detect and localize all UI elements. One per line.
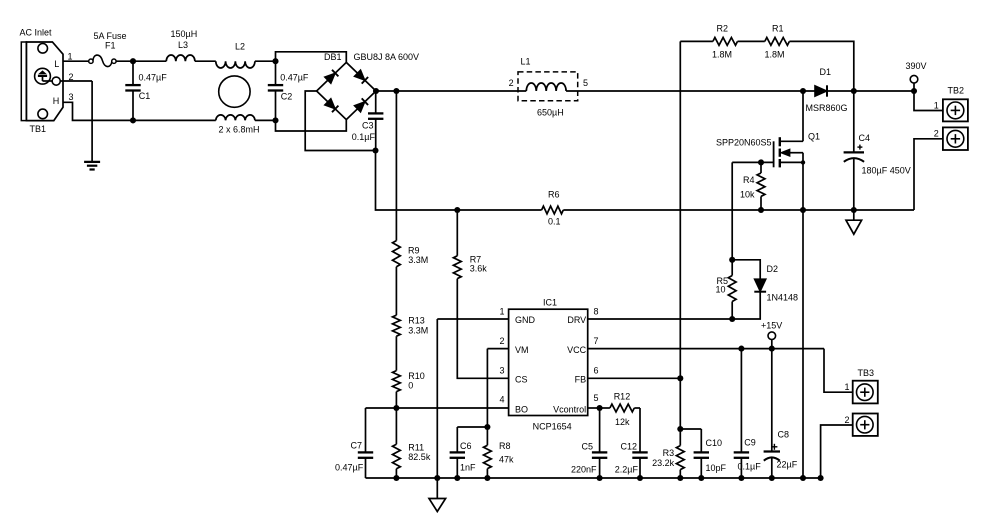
node return ground <box>800 475 806 481</box>
node R8 ground <box>484 475 490 481</box>
bridge rectifier DB1 <box>317 62 376 119</box>
diode D1 <box>815 86 827 97</box>
resistor R12 <box>600 407 610 409</box>
svg-text:Q1: Q1 <box>808 131 820 141</box>
svg-text:BO: BO <box>515 404 528 414</box>
resistor R7 <box>453 256 461 279</box>
node C12 ground <box>637 475 643 481</box>
wire fuse to L3 (through C1 node) <box>116 60 166 62</box>
svg-text:82.5k: 82.5k <box>408 452 431 462</box>
wire DRV pin8 <box>588 318 733 320</box>
common-mode choke core <box>219 76 250 107</box>
node C10 tap <box>677 426 683 432</box>
svg-text:TB3: TB3 <box>858 368 875 378</box>
svg-text:Vcontrol: Vcontrol <box>553 404 586 414</box>
fuse F1 <box>89 59 93 63</box>
svg-text:180µF 450V: 180µF 450V <box>862 166 911 176</box>
svg-text:MSR860G: MSR860G <box>806 103 848 113</box>
svg-text:R9: R9 <box>408 245 420 255</box>
svg-text:22µF: 22µF <box>777 460 798 470</box>
wire VCC to TB3 pin1 <box>824 349 853 393</box>
wire FB column to R3 <box>679 378 681 445</box>
node C5 ground <box>597 475 603 481</box>
svg-text:C6: C6 <box>460 441 472 451</box>
svg-text:C4: C4 <box>859 133 871 143</box>
wire R9 to R13 <box>395 267 397 316</box>
svg-text:10pF: 10pF <box>706 463 727 473</box>
svg-text:8: 8 <box>594 306 599 316</box>
wire L3 to L2 <box>195 60 216 62</box>
wire choke to C2 bottom <box>255 119 276 121</box>
svg-text:C7: C7 <box>351 441 363 451</box>
terminal block TB3 <box>853 381 878 404</box>
transistor Q1 <box>773 141 775 167</box>
node TB3 ground <box>818 475 824 481</box>
resistor R3 <box>676 446 684 470</box>
node C4 negative on return rail <box>851 207 857 213</box>
wire gate column down <box>731 162 733 259</box>
wire Q1 source to return rail <box>802 153 804 210</box>
wire VM pin2 <box>487 348 508 350</box>
svg-text:F1: F1 <box>105 41 116 51</box>
node bridge DC+ output <box>373 88 379 94</box>
svg-text:3.3M: 3.3M <box>408 255 428 265</box>
terminal block TB2 <box>943 99 968 121</box>
wire FB pin6 <box>588 377 681 379</box>
capacitor C12 <box>639 408 641 452</box>
svg-text:1: 1 <box>499 306 504 316</box>
svg-text:GBU8J 8A 600V: GBU8J 8A 600V <box>354 52 420 62</box>
svg-text:390V: 390V <box>906 61 927 71</box>
wire R10 to BO node <box>395 392 397 408</box>
svg-text:NCP1654: NCP1654 <box>533 422 572 432</box>
wire feedback top row left <box>680 40 713 42</box>
svg-text:1: 1 <box>934 101 939 111</box>
resistor R5 <box>731 260 733 276</box>
svg-text:GND: GND <box>515 315 536 325</box>
wire VM node to C6 <box>457 426 487 428</box>
wire TB1 pin3 to bottom rail <box>63 102 216 120</box>
PFC controller IC1 NCP1654 <box>509 309 588 415</box>
node C6 ground <box>454 475 460 481</box>
node C8 ground <box>769 475 775 481</box>
node DRV to gate network <box>729 316 735 322</box>
svg-text:R10: R10 <box>408 371 425 381</box>
svg-text:1nF: 1nF <box>460 463 476 473</box>
svg-text:0: 0 <box>408 380 413 390</box>
svg-text:L2: L2 <box>235 42 245 52</box>
svg-text:12k: 12k <box>615 417 630 427</box>
svg-text:C12: C12 <box>621 442 638 452</box>
node R4 bottom on return rail <box>758 207 764 213</box>
svg-text:TB1: TB1 <box>30 124 47 134</box>
node C1 top <box>130 58 136 64</box>
svg-text:C10: C10 <box>706 438 723 448</box>
capacitor C6 <box>456 427 458 452</box>
svg-text:R8: R8 <box>499 441 511 451</box>
node C2 top <box>272 58 278 64</box>
inductor L1 <box>518 72 578 101</box>
capacitor C9 <box>740 349 742 453</box>
wire VCC pin7 <box>588 348 824 350</box>
capacitor C8 <box>771 349 773 452</box>
wire feedback column <box>679 41 681 378</box>
capacitor C10 <box>700 429 702 452</box>
svg-text:3.6k: 3.6k <box>470 264 488 274</box>
node Q1 drain tap <box>800 88 806 94</box>
wire R13 to R10 <box>395 336 397 370</box>
node C10 ground <box>698 475 704 481</box>
node Vcontrol <box>597 405 603 411</box>
signal ground <box>436 478 438 499</box>
svg-text:FB: FB <box>575 374 587 384</box>
power ground <box>853 210 855 220</box>
svg-text:R6: R6 <box>548 190 560 200</box>
wire C2 top to bridge AC1 <box>276 52 347 63</box>
node gate R4 tap <box>758 159 764 165</box>
wire return to signal ground <box>802 210 804 478</box>
svg-text:CS: CS <box>515 374 528 384</box>
svg-text:R4: R4 <box>743 175 755 185</box>
resistor R13 <box>393 315 401 336</box>
resistor R10 <box>393 371 401 392</box>
svg-text:C3: C3 <box>362 120 374 130</box>
svg-text:47k: 47k <box>499 455 514 465</box>
svg-text:VCC: VCC <box>567 345 587 355</box>
svg-text:AC Inlet: AC Inlet <box>20 27 53 37</box>
svg-text:2: 2 <box>934 128 939 138</box>
svg-text:1: 1 <box>844 382 849 392</box>
resistor R4 <box>760 162 762 173</box>
wire GND pin1 <box>437 318 508 320</box>
svg-text:R1: R1 <box>772 24 784 34</box>
wire TB3 pin2 to ground <box>821 425 853 478</box>
svg-text:1N4148: 1N4148 <box>767 292 799 302</box>
wire return rail to R7 <box>456 210 458 256</box>
svg-text:TB2: TB2 <box>948 86 965 96</box>
svg-text:10k: 10k <box>740 190 755 200</box>
svg-text:SPP20N60S5: SPP20N60S5 <box>716 137 772 147</box>
svg-text:VM: VM <box>515 345 529 355</box>
wire return rail right of R6 <box>563 209 914 211</box>
svg-text:R13: R13 <box>408 316 425 326</box>
node Q1 source on return rail <box>800 207 806 213</box>
terminal 390V <box>910 75 918 83</box>
wire R1 to output node <box>789 41 853 91</box>
inductor L3 <box>166 55 195 61</box>
svg-text:R2: R2 <box>717 24 729 34</box>
svg-text:2: 2 <box>499 336 504 346</box>
wire 390V to TB2 pin1 <box>914 91 943 111</box>
wire bridge DC- to C3 bottom <box>305 91 375 151</box>
svg-text:H: H <box>53 96 60 106</box>
wire DC- down to return rail <box>376 151 542 211</box>
wire gate lead <box>732 161 773 163</box>
svg-text:0.1µF: 0.1µF <box>352 132 376 142</box>
svg-text:220nF: 220nF <box>571 464 597 474</box>
svg-text:2.2µF: 2.2µF <box>615 465 639 475</box>
svg-text:C5: C5 <box>581 442 593 452</box>
node C9 vcc <box>738 346 744 352</box>
svg-text:2 x 6.8mH: 2 x 6.8mH <box>219 124 260 134</box>
svg-text:5: 5 <box>594 393 599 403</box>
svg-text:DB1: DB1 <box>324 52 342 62</box>
svg-text:D1: D1 <box>820 67 832 77</box>
node R9 sense tap <box>393 88 399 94</box>
capacitor C4 <box>853 91 855 152</box>
svg-text:IC1: IC1 <box>543 297 557 307</box>
common-mode choke L2 top winding <box>216 61 255 68</box>
svg-text:3: 3 <box>69 92 74 102</box>
capacitor C3 <box>375 91 377 113</box>
svg-text:D2: D2 <box>767 264 779 274</box>
svg-text:C8: C8 <box>778 430 790 440</box>
resistor R2 <box>713 38 738 46</box>
svg-text:R12: R12 <box>614 392 631 402</box>
node Q1 source-body tie <box>801 160 805 164</box>
svg-text:1.8M: 1.8M <box>712 49 732 59</box>
svg-text:0.1: 0.1 <box>548 217 561 227</box>
wire Q1 drain <box>802 91 804 141</box>
svg-text:R3: R3 <box>663 448 675 458</box>
wire D1 to output <box>827 90 914 92</box>
wire R7 to CS pin <box>457 279 508 379</box>
common-mode choke lower winding 2 x 6.8mH <box>216 115 255 121</box>
capacitor C5 <box>599 408 601 452</box>
resistor R6 <box>542 206 564 214</box>
svg-text:0.47µF: 0.47µF <box>139 72 168 82</box>
wire TB1 pin2 to earth <box>61 80 93 82</box>
svg-text:23.2k: 23.2k <box>652 458 675 468</box>
svg-text:3: 3 <box>499 365 504 375</box>
svg-text:0.1µF: 0.1µF <box>738 462 762 472</box>
wire rail to R9 <box>395 91 397 241</box>
node GND pin ground <box>434 475 440 481</box>
node +15V vcc <box>769 346 775 352</box>
svg-text:4: 4 <box>499 395 504 405</box>
node VM filter <box>484 424 490 430</box>
svg-text:+15V: +15V <box>761 321 782 331</box>
capacitor C7 <box>365 408 367 452</box>
svg-text:7: 7 <box>594 336 599 346</box>
wire C10 branch <box>680 428 701 430</box>
svg-text:2: 2 <box>509 78 514 88</box>
node C1 bottom <box>130 117 136 123</box>
node R3 ground <box>677 475 683 481</box>
AC inlet connector TB1 <box>21 42 26 121</box>
svg-text:L1: L1 <box>521 57 531 67</box>
terminal +15V <box>768 332 776 340</box>
wire L2 to C2 <box>255 60 276 62</box>
svg-text:0.47µF: 0.47µF <box>335 463 364 473</box>
wire BO pin4 row <box>366 407 509 409</box>
svg-text:R11: R11 <box>408 443 424 453</box>
resistor R8 <box>486 427 488 445</box>
capacitor C1 <box>132 61 134 85</box>
svg-text:1: 1 <box>68 52 73 62</box>
node BO divider tap <box>393 405 399 411</box>
svg-text:5: 5 <box>583 78 588 88</box>
node C3 bottom <box>372 147 378 153</box>
resistor R1 <box>765 38 790 46</box>
wire L1 to D1 <box>566 90 815 92</box>
node R11 ground <box>393 475 399 481</box>
svg-text:L3: L3 <box>178 40 188 50</box>
svg-text:2: 2 <box>844 415 849 425</box>
svg-text:DRV: DRV <box>567 315 586 325</box>
wire between R2 and R1 <box>738 40 765 42</box>
svg-text:650µH: 650µH <box>537 107 564 117</box>
node gate drive top <box>729 257 735 263</box>
wire signal ground rail <box>366 477 821 479</box>
capacitor C2 <box>275 61 277 85</box>
wire C2 bottom to bridge AC2 <box>276 120 347 131</box>
wire Vcontrol pin5 <box>588 407 600 409</box>
svg-text:6: 6 <box>594 365 599 375</box>
svg-text:C1: C1 <box>139 91 151 101</box>
resistor R11 <box>395 408 397 444</box>
node C4 positive <box>851 88 857 94</box>
wire TB2 pin2 to return rail <box>914 139 943 210</box>
svg-text:10: 10 <box>715 285 725 295</box>
svg-text:0.47µF: 0.47µF <box>280 72 309 82</box>
node C9 ground <box>738 475 744 481</box>
resistor R9 <box>393 241 401 267</box>
node 390V output <box>911 88 917 94</box>
svg-text:1.8M: 1.8M <box>765 49 785 59</box>
node C2 bottom <box>272 117 278 123</box>
node R7 top on return rail <box>454 207 460 213</box>
svg-text:C2: C2 <box>281 92 293 102</box>
svg-text:5A Fuse: 5A Fuse <box>94 31 127 41</box>
diode D2 <box>732 260 760 279</box>
svg-text:150µH: 150µH <box>171 29 198 39</box>
wire TB1 pin1 to fuse <box>63 60 89 62</box>
svg-text:L: L <box>54 59 59 69</box>
node FB <box>677 375 683 381</box>
svg-text:3.3M: 3.3M <box>408 325 428 335</box>
svg-text:C9: C9 <box>744 438 756 448</box>
wire rectified rail to L1 <box>376 90 526 92</box>
earth ground <box>84 161 100 163</box>
